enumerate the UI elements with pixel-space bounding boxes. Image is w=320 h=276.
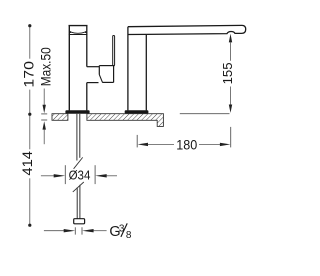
180 dim right extension xyxy=(230,127,232,147)
G3/8 right stem xyxy=(93,230,106,232)
fraction slash xyxy=(121,223,127,237)
155 dim upper stem xyxy=(230,42,232,60)
Max.50 upper stem xyxy=(43,89,45,106)
svg-text:8: 8 xyxy=(126,230,132,241)
countertop right section with end return xyxy=(87,114,163,127)
cap corner dot right xyxy=(85,31,87,33)
faucet body left edge xyxy=(68,26,70,111)
lever diagonal xyxy=(99,75,102,83)
dia34 right witness line xyxy=(94,165,96,184)
faucet body right edge upper xyxy=(86,26,88,67)
155 dim upper arrow xyxy=(229,34,232,43)
svg-text:170: 170 xyxy=(20,61,36,88)
Max.50 tick top xyxy=(41,113,47,115)
countertop reference line right xyxy=(180,113,230,115)
pipe break slash upper xyxy=(74,157,83,168)
dim dot top xyxy=(28,24,31,27)
cap concave arc xyxy=(70,32,86,34)
handle step bottom line xyxy=(87,82,99,84)
svg-text:155: 155 xyxy=(220,62,235,84)
180 dim left extension xyxy=(136,135,138,148)
base flange left faucet xyxy=(65,110,89,113)
countertop left section xyxy=(52,114,68,121)
dimension line 170/414 vertical xyxy=(29,26,31,226)
cartridge right edge xyxy=(98,66,100,75)
180 dim right arrow xyxy=(220,143,231,146)
pipe break slash lower xyxy=(73,182,84,192)
spout top line with rounded tip xyxy=(128,25,246,33)
G3/8 left arrow xyxy=(64,229,75,232)
dim dot middle xyxy=(28,113,31,116)
Max.50 down arrow xyxy=(43,105,46,113)
faucet body right edge lower xyxy=(86,83,88,111)
cap corner dot left xyxy=(69,31,71,33)
dia34 right stem xyxy=(107,175,118,177)
lever bottom line xyxy=(102,81,113,83)
Max.50 lower stem xyxy=(43,129,45,144)
spout bottom line with aerator bump xyxy=(128,32,241,35)
155 dim lower stem xyxy=(230,87,232,106)
155 dim lower arrow xyxy=(229,105,232,113)
handle grip bar xyxy=(113,36,115,66)
180 dim left arrow xyxy=(138,143,149,146)
spout column left edge xyxy=(127,27,129,111)
svg-text:Ø34: Ø34 xyxy=(69,168,91,183)
svg-text:414: 414 xyxy=(19,151,35,176)
base flange spout column xyxy=(125,110,149,113)
dim dot bottom xyxy=(28,224,31,227)
dia34 left stem xyxy=(41,175,54,177)
supply pipe lower left line xyxy=(76,188,78,219)
faucet body cap top line xyxy=(69,25,88,27)
supply pipe lower right line xyxy=(79,185,81,219)
dia34 left witness line xyxy=(64,165,66,184)
supply pipe upper right line xyxy=(79,114,81,158)
dia34 left arrow xyxy=(54,174,65,177)
svg-text:180: 180 xyxy=(176,136,197,152)
G3/8 right arrow xyxy=(82,229,94,232)
hose connector xyxy=(74,219,85,224)
spout column right edge xyxy=(145,34,147,110)
svg-text:3: 3 xyxy=(119,223,125,234)
cap separation line xyxy=(69,34,88,36)
Max.50 tick bottom xyxy=(41,119,47,121)
G3/8 tick right xyxy=(81,227,83,234)
lever top line xyxy=(99,65,114,67)
dia34 right arrow xyxy=(95,174,107,177)
supply pipe upper left line xyxy=(76,114,78,161)
svg-text:Max.50: Max.50 xyxy=(37,47,53,86)
lever right edge xyxy=(113,66,115,83)
180 dim right stem xyxy=(199,143,220,145)
handle step top line xyxy=(87,66,100,68)
G3/8 tick left xyxy=(74,227,76,234)
Max.50 up arrow xyxy=(43,121,46,129)
G3/8 left stem xyxy=(44,230,64,232)
180 dim left stem xyxy=(148,143,174,145)
